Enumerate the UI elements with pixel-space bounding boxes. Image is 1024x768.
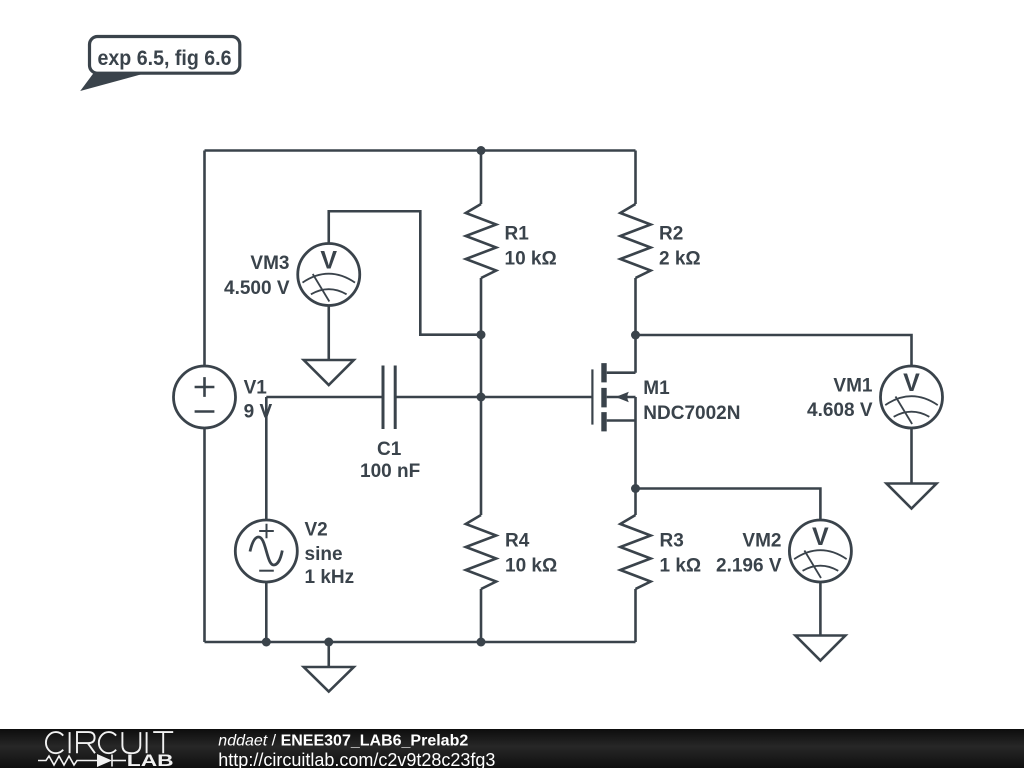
svg-text:exp 6.5, fig 6.6: exp 6.5, fig 6.6: [98, 47, 232, 70]
svg-text:R2: R2: [659, 224, 683, 245]
svg-text:V2: V2: [305, 519, 328, 540]
svg-text:100 nF: 100 nF: [360, 461, 420, 482]
svg-text:sine: sine: [305, 544, 343, 565]
svg-text:9 V: 9 V: [244, 402, 273, 423]
svg-text:VM3: VM3: [250, 253, 289, 274]
svg-text:2 kΩ: 2 kΩ: [659, 249, 701, 270]
svg-text:V: V: [320, 247, 337, 275]
svg-text:V: V: [903, 369, 920, 397]
svg-text:VM1: VM1: [833, 376, 873, 397]
svg-text:C1: C1: [377, 439, 402, 460]
svg-text:LAB: LAB: [127, 752, 174, 768]
svg-text:NDC7002N: NDC7002N: [643, 403, 740, 424]
svg-text:R4: R4: [505, 531, 530, 552]
svg-text:nddaet / ENEE307_LAB6_Prelab2: nddaet / ENEE307_LAB6_Prelab2: [218, 733, 468, 750]
svg-text:V1: V1: [244, 377, 268, 398]
svg-text:10 kΩ: 10 kΩ: [505, 249, 557, 270]
svg-text:4.500 V: 4.500 V: [224, 278, 290, 299]
svg-text:2.196 V: 2.196 V: [716, 556, 782, 577]
svg-text:R1: R1: [505, 224, 530, 245]
svg-text:http://circuitlab.com/c2v9t28c: http://circuitlab.com/c2v9t28c23fg3: [218, 750, 495, 768]
svg-text:M1: M1: [643, 378, 670, 399]
svg-text:1 kΩ: 1 kΩ: [660, 556, 702, 577]
svg-text:10 kΩ: 10 kΩ: [505, 556, 557, 577]
svg-text:R3: R3: [660, 531, 684, 552]
svg-text:4.608 V: 4.608 V: [807, 400, 873, 421]
svg-text:V: V: [812, 523, 829, 551]
svg-text:VM2: VM2: [742, 530, 781, 551]
svg-text:1 kHz: 1 kHz: [305, 567, 355, 588]
